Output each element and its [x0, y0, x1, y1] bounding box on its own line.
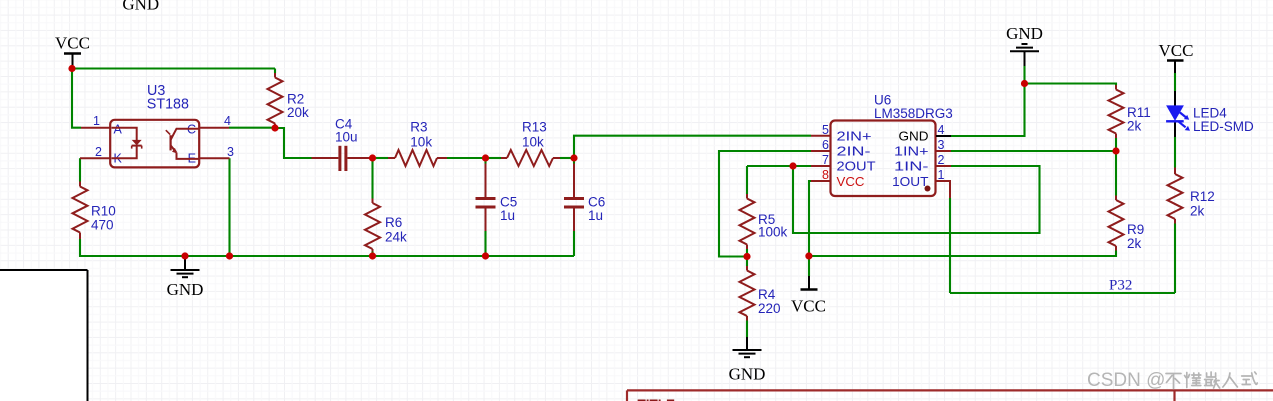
- svg-text:10k: 10k: [410, 135, 432, 150]
- pin 8 (VCC): [811, 168, 865, 189]
- svg-text:TITLE: TITLE: [638, 397, 676, 401]
- svg-text:GND: GND: [167, 280, 204, 299]
- svg-text:VCC: VCC: [55, 34, 90, 53]
- net label P32: [1109, 278, 1132, 294]
- svg-text:5: 5: [822, 123, 829, 137]
- op U3 designator: [147, 83, 189, 113]
- pin 1 (1OUT): [892, 168, 950, 198]
- wire net P32: [950, 292, 1175, 294]
- svg-text:8: 8: [822, 168, 829, 182]
- sheet border box: [0, 270, 88, 401]
- svg-text:7: 7: [822, 153, 829, 167]
- wire R5 bottom to node: [746, 249, 748, 257]
- wire node B to R13: [486, 157, 502, 159]
- svg-text:1u: 1u: [500, 208, 515, 223]
- svg-text:2IN+: 2IN+: [837, 128, 872, 143]
- svg-text:R13: R13: [522, 120, 547, 135]
- svg-text:4: 4: [938, 123, 945, 137]
- power VCC right: [1159, 41, 1194, 73]
- U3 internal phototransistor: [166, 129, 199, 159]
- svg-text:6: 6: [822, 138, 829, 152]
- junction node C (R13/C6/pin5): [570, 154, 577, 161]
- svg-text:3: 3: [227, 145, 234, 159]
- resistor R10: [73, 182, 116, 240]
- resistor R13: [501, 120, 560, 167]
- wire U6 pin1 down: [949, 198, 951, 293]
- svg-text:A: A: [114, 123, 123, 137]
- wire LED4 to R12: [1174, 137, 1176, 168]
- capacitor C6: [564, 164, 605, 232]
- capacitor C5: [476, 164, 518, 232]
- svg-text:2k: 2k: [1190, 204, 1205, 219]
- junction VCC mid node: [805, 252, 812, 259]
- capacitor C4: [312, 116, 373, 171]
- svg-text:GND: GND: [729, 365, 766, 384]
- watermark CSDN: [1087, 370, 1257, 391]
- svg-text:VCC: VCC: [791, 297, 826, 316]
- svg-text:220: 220: [758, 301, 781, 316]
- wire C6 to ground rail: [573, 231, 575, 256]
- wire VCC top rail: [72, 67, 275, 69]
- junction GND tap: [181, 252, 188, 259]
- svg-text:R3: R3: [410, 120, 427, 135]
- wire C4 to R3: [373, 157, 389, 159]
- power VCC left: [55, 34, 90, 67]
- wire VCC node to R9 bottom: [809, 251, 1116, 257]
- junction node A (C4/R3/R6): [369, 154, 376, 161]
- svg-text:GND: GND: [122, 0, 159, 14]
- op-amp U6 box: [831, 121, 936, 197]
- power GND top (cropped): [122, 0, 159, 14]
- svg-text:LED-SMD: LED-SMD: [1193, 119, 1254, 134]
- pin 3 (E): [188, 145, 234, 166]
- LED LED4: [1166, 91, 1254, 137]
- svg-text:2: 2: [95, 145, 102, 159]
- wire ground rail: [80, 239, 574, 256]
- junction R2 bottom: [271, 124, 278, 131]
- pin 4 (GND): [899, 123, 952, 143]
- wire R4 to GND: [746, 321, 748, 338]
- junction R6 rail: [369, 252, 376, 259]
- pin 6 (2IN-): [811, 138, 871, 159]
- svg-text:10u: 10u: [335, 130, 358, 145]
- op-amp U6 designator: [874, 93, 953, 122]
- pin 2 (1IN-): [894, 153, 951, 174]
- pin 1 (A): [81, 114, 123, 137]
- svg-text:P32: P32: [1109, 278, 1132, 294]
- wire R3 to node B: [447, 157, 486, 159]
- junction pin3 rail: [226, 252, 233, 259]
- svg-text:CSDN @: CSDN @: [1087, 370, 1165, 391]
- svg-text:1IN+: 1IN+: [894, 144, 929, 159]
- wire R12 bottom to P32: [1174, 224, 1176, 294]
- wire VCC to U3 pin1: [72, 69, 81, 128]
- wire R11 bottom to node: [1115, 138, 1117, 151]
- wire node B to C5: [484, 158, 486, 164]
- svg-text:R6: R6: [385, 215, 402, 230]
- wire U6 pin6 to R5 bottom: [719, 151, 811, 257]
- resistor R4: [740, 266, 781, 321]
- svg-text:24k: 24k: [385, 230, 407, 245]
- wire U3 pin2 to R10: [79, 158, 81, 181]
- resistor R6: [365, 199, 407, 252]
- junction node B (R3/R13/C5): [482, 154, 489, 161]
- resistor R2: [268, 69, 310, 129]
- svg-text:VCC: VCC: [837, 174, 865, 189]
- wire U3 pin3 down: [228, 158, 230, 256]
- pin 4 (C): [187, 114, 231, 137]
- svg-text:R9: R9: [1127, 222, 1144, 237]
- svg-text:2IN-: 2IN-: [837, 144, 871, 159]
- junction R5/R4 node: [743, 253, 750, 260]
- resistor R9: [1109, 196, 1145, 252]
- pin 3 (1IN+): [894, 138, 951, 159]
- svg-text:LM358DRG3: LM358DRG3: [874, 106, 953, 121]
- title block: [627, 390, 1273, 401]
- ground GND left: [167, 256, 204, 299]
- svg-text:2OUT: 2OUT: [837, 159, 876, 174]
- wire R5 top drop: [746, 166, 748, 194]
- wire node C to C6: [573, 158, 575, 164]
- svg-text:ST188: ST188: [147, 97, 189, 113]
- svg-text:R10: R10: [91, 204, 116, 219]
- op U3 box: [110, 120, 199, 168]
- svg-text:1: 1: [93, 114, 100, 128]
- svg-text:4: 4: [224, 114, 231, 128]
- power VCC mid (U6 pin8): [791, 276, 826, 316]
- ground GND mid (R4): [729, 337, 766, 384]
- svg-text:R4: R4: [758, 287, 776, 302]
- wire C5 to ground rail: [484, 231, 486, 256]
- wire node to R9 top: [1115, 151, 1117, 196]
- svg-text:1u: 1u: [588, 208, 603, 223]
- pin 5 (2IN+): [811, 123, 872, 143]
- wire U3 pin4 to R2 node: [229, 127, 275, 129]
- wire U6 pin8 VCC drop: [809, 181, 811, 276]
- wire node to R4: [746, 257, 748, 267]
- svg-text:R12: R12: [1190, 189, 1215, 204]
- resistor R5: [740, 194, 788, 249]
- U3 internal LED: [112, 128, 142, 159]
- junction C5 rail: [482, 252, 489, 259]
- wire U6 pin3 to divider node: [951, 150, 1116, 152]
- svg-text:2: 2: [938, 153, 945, 167]
- svg-text:VCC: VCC: [1159, 41, 1194, 60]
- junction VCC left: [68, 65, 75, 72]
- svg-text:1IN-: 1IN-: [894, 159, 929, 174]
- wire GND node to R11 top: [1025, 84, 1117, 86]
- svg-text:470: 470: [91, 218, 114, 233]
- svg-text:20k: 20k: [287, 105, 309, 120]
- svg-text:GND: GND: [899, 128, 929, 143]
- svg-text:10k: 10k: [522, 135, 544, 150]
- wire U6 pin7 to R5 top: [747, 165, 811, 167]
- wire R13 to node C: [560, 157, 575, 159]
- junction GND right node: [1021, 80, 1028, 87]
- resistor R11: [1109, 85, 1151, 138]
- svg-text:3: 3: [938, 138, 945, 152]
- wire 2OUT to 1IN-: [793, 166, 1040, 233]
- U6 part marker dot: [925, 186, 931, 192]
- wire VCC to LED4: [1174, 73, 1176, 91]
- pin 2 (K): [80, 145, 123, 166]
- svg-text:100k: 100k: [758, 225, 788, 240]
- wire R6 to ground rail: [371, 252, 373, 257]
- svg-text:2k: 2k: [1127, 119, 1142, 134]
- junction 2OUT: [789, 162, 796, 169]
- resistor R3: [388, 120, 447, 167]
- junction divider node: [1112, 147, 1119, 154]
- wire node A to R6: [371, 158, 373, 199]
- resistor R12: [1168, 168, 1215, 224]
- svg-text:1: 1: [938, 168, 945, 182]
- wire U6 pin4 to GND node: [951, 66, 1025, 136]
- wire R2 node to C4: [275, 128, 312, 158]
- svg-text:2k: 2k: [1127, 236, 1142, 251]
- svg-text:GND: GND: [1006, 24, 1043, 43]
- svg-text:1OUT: 1OUT: [892, 174, 928, 189]
- wire node C up to U6 pin5: [574, 136, 811, 158]
- pin 7 (2OUT): [811, 153, 876, 174]
- ground GND top right: [1006, 24, 1043, 66]
